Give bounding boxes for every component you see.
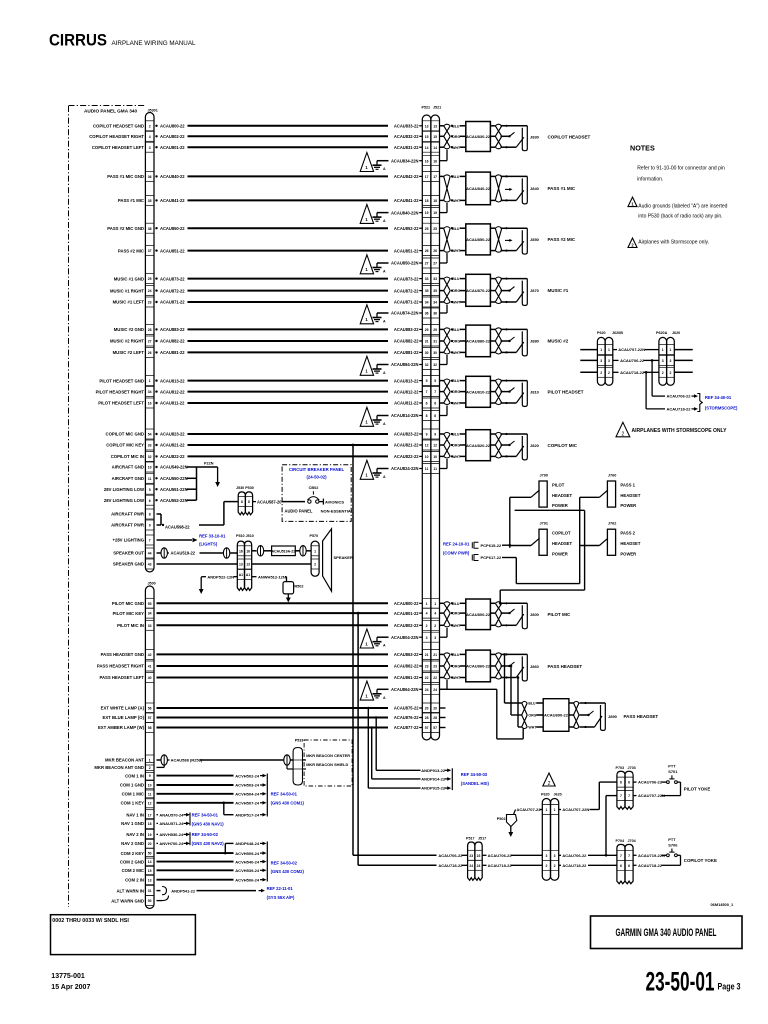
wire ACAU881-22 (MUSIC #2 LEFT) [113,350,423,355]
wire ANWH512-12N to resistor R502 [252,574,287,581]
svg-text:ORG: ORG [528,714,536,718]
circuit breaker panel box 24-50-02 [282,465,351,522]
svg-text:(SANDEL HSI): (SANDEL HSI) [461,781,490,786]
svg-text:2: 2 [149,766,151,770]
svg-text:2: 2 [548,781,551,787]
svg-text:PTT: PTT [668,764,676,769]
svg-text:25: 25 [148,277,152,281]
svg-text:MUSIC #1 RIGHT: MUSIC #1 RIGHT [110,288,144,293]
svg-text:(STORMSCOPE): (STORMSCOPE) [705,406,738,411]
svg-text:R502: R502 [294,584,303,588]
svg-text:ACAU822-22: ACAU822-22 [394,454,419,459]
svg-text:Refer to 91-10-00 for connecto: Refer to 91-10-00 for connector and pin [637,166,725,172]
svg-text:2: 2 [426,624,428,628]
svg-text:ACAU820-22: ACAU820-22 [466,443,491,448]
svg-text:29: 29 [433,328,437,332]
svg-text:1: 1 [365,267,368,272]
svg-text:ACAU718-22: ACAU718-22 [562,863,587,868]
svg-text:ANDP648-24: ANDP648-24 [235,841,260,846]
svg-text:ACAU876-22: ACAU876-22 [394,715,419,720]
svg-text:PILOT: PILOT [552,483,565,488]
svg-text:BLU: BLU [452,653,460,657]
svg-text:(GNS 430 NAV2): (GNS 430 NAV2) [192,841,225,846]
svg-text:26: 26 [148,351,152,355]
wire ACAU832-22 (COPILOT HEADSET RIGHT) [89,134,422,139]
svg-text:J620: J620 [672,331,680,335]
svg-text:PILOT HEADSET: PILOT HEADSET [548,390,584,395]
svg-text:20: 20 [148,842,152,846]
wires headset power distribution [499,497,585,604]
jack J870 (MUSIC #1) [501,278,540,306]
wire ACAU549-22N group (aircraft gnd / lighting low) [104,462,220,503]
svg-text:1: 1 [365,369,368,374]
svg-text:50: 50 [148,852,152,856]
svg-text:33: 33 [148,624,152,628]
svg-text:9: 9 [426,433,428,437]
svg-text:20: 20 [425,707,429,711]
svg-text:A1: A1 [246,573,250,577]
svg-text:into P530 (back of radio rack): into P530 (back of radio rack) any pin. [638,213,722,219]
svg-text:ACAU882-22: ACAU882-22 [160,339,185,344]
svg-text:16: 16 [433,159,437,163]
svg-text:3: 3 [545,854,547,858]
svg-text:SPEAKER OUT: SPEAKER OUT [113,551,144,556]
wire ACAU588 (R258) mkr beacon ant [94,755,293,770]
svg-text:REF 34-50-02: REF 34-50-02 [192,832,219,837]
note 1 audio grounds [628,197,728,219]
svg-text:26: 26 [433,249,437,253]
svg-text:1: 1 [662,348,664,352]
svg-text:16: 16 [425,159,429,163]
svg-text:18: 18 [425,199,429,203]
svg-text:AVIONICS: AVIONICS [325,499,344,504]
ground A note1 / wire ACAU814-22N [360,406,447,427]
svg-text:J800: J800 [530,612,540,617]
svg-text:ACAU871-22: ACAU871-22 [160,300,185,305]
svg-text:WHT: WHT [452,455,461,459]
wire ACAU800-22 (PILOT MIC GND) [112,601,422,606]
svg-text:P703: P703 [616,766,625,770]
svg-text:1: 1 [365,217,368,222]
svg-text:1: 1 [434,602,436,606]
svg-text:6: 6 [628,781,630,785]
svg-text:ANVH530-24: ANVH530-24 [159,832,184,837]
svg-text:MUSIC #2 RIGHT: MUSIC #2 RIGHT [110,339,144,344]
document number 13775-001 / 15 Apr 2007 [51,973,90,991]
svg-text:PASS HEADSET GND: PASS HEADSET GND [101,652,144,657]
svg-text:COM 2 MIC: COM 2 MIC [122,868,144,873]
wire ANDP913 drop [375,716,421,770]
ref 24-10-01 COMV PWR / wires PCP615-22 PCP617-22 [443,542,516,561]
svg-text:ACVH506-24: ACVH506-24 [235,877,260,882]
svg-text:ACAU872-22: ACAU872-22 [394,288,419,293]
jack J830 (COPILOT HEADSET) [501,125,540,151]
svg-text:6: 6 [620,781,622,785]
svg-text:3: 3 [426,636,428,640]
wire ACAU841-22 (PASS #1 MIC) [118,198,422,203]
svg-text:21: 21 [433,653,437,657]
wire ACAU852-22 (PASS #2 MIC GND) [107,226,422,231]
label PILOT MIC [548,612,571,617]
svg-text:ACAU851-22: ACAU851-22 [160,248,185,253]
notes heading [630,144,655,153]
svg-text:ACAU842-22: ACAU842-22 [394,174,419,179]
svg-text:P533: P533 [295,739,304,743]
svg-text:37: 37 [148,249,152,253]
svg-text:MUSIC #1: MUSIC #1 [548,288,569,293]
svg-text:2: 2 [600,371,602,375]
ground A note1 / wire ACAU834-22N [360,150,447,172]
wire ACAU833-22 (COPILOT HEADSET GND) [93,124,422,129]
svg-text:ACAU814-22N: ACAU814-22N [391,413,419,418]
connector P570 [310,534,320,576]
twisted shielded cable ACAU820-22 [440,430,502,461]
svg-text:13: 13 [148,878,152,882]
ground A note1 / wire ACAU850-22N [360,253,447,274]
svg-text:A: A [383,270,386,274]
svg-text:ACAU718-22: ACAU718-22 [638,863,663,868]
svg-text:ACVH509-24: ACVH509-24 [235,851,260,856]
svg-text:12: 12 [433,444,437,448]
svg-text:1: 1 [314,549,316,553]
svg-text:PCP617-22: PCP617-22 [481,555,502,560]
svg-text:A: A [383,219,386,223]
svg-text:16: 16 [148,402,152,406]
svg-text:J521: J521 [433,106,441,110]
connector J5301 (audio panel top) [145,109,157,573]
svg-text:28: 28 [425,716,429,720]
svg-text:27: 27 [148,340,152,344]
svg-text:PASS #2 MIC: PASS #2 MIC [548,237,576,242]
svg-text:8: 8 [434,414,436,418]
svg-text:ACAU812-22: ACAU812-22 [160,389,185,394]
svg-text:ACAU800-22: ACAU800-22 [466,612,491,617]
svg-text:J860: J860 [530,664,540,669]
svg-text:PASS HEADSET LEFT: PASS HEADSET LEFT [99,675,144,680]
svg-text:ANWH512-12N: ANWH512-12N [258,574,286,579]
svg-text:A: A [383,422,386,426]
wire pilot mic key drop (to P517) [357,612,437,866]
svg-text:29: 29 [425,328,429,332]
wires NAV2 group to GNS 430 NAV2 [121,832,224,846]
wires NAV1 group to GNS 430 NAV1 [121,812,224,826]
svg-text:1: 1 [600,348,602,352]
svg-text:7: 7 [628,854,630,858]
svg-text:2: 2 [554,864,556,868]
svg-text:COM 2 KEY: COM 2 KEY [121,851,145,856]
svg-text:ORG: ORG [452,390,460,394]
svg-text:J870: J870 [530,288,540,293]
svg-text:BLU: BLU [452,175,460,179]
twisted shielded cable ACAU890-22 [522,699,579,732]
connector P620 J620 (bottom) [541,793,562,881]
svg-text:J620B: J620B [612,331,623,335]
svg-text:15: 15 [433,135,437,139]
svg-text:S706: S706 [668,842,678,847]
note triangle 2 airplanes with stormscope only [616,422,727,437]
connector P703 J703 [616,766,636,809]
svg-text:1: 1 [670,348,672,352]
svg-text:J820: J820 [530,443,540,448]
twisted shielded cable ACAU880-22 [440,325,502,357]
svg-text:1: 1 [149,379,151,383]
jack J880 (MUSIC #2) [501,328,540,356]
svg-text:MUSIC #2 LEFT: MUSIC #2 LEFT [113,350,145,355]
svg-text:PILOT MIC IN: PILOT MIC IN [117,623,144,628]
svg-text:CB02: CB02 [309,486,319,490]
jack J820 (COPILOT MIC) [501,433,540,460]
svg-text:27: 27 [425,262,429,266]
wires P517 to P620 [482,853,542,868]
svg-text:ACAU706-22: ACAU706-22 [562,853,587,858]
svg-text:ACAU811-22: ACAU811-22 [160,401,185,406]
svg-text:CIRRUS: CIRRUS [49,32,107,50]
svg-text:ANDP914-22: ANDP914-22 [421,777,446,782]
svg-text:13775-001: 13775-001 [51,973,85,980]
svg-text:P517: P517 [466,837,475,841]
svg-text:ACAU551-22N: ACAU551-22N [160,487,188,492]
svg-text:3: 3 [434,636,436,640]
wire ACAU875-22 (EXT WHITE LAMP (A)) [101,706,423,711]
connector P517 J517 [466,837,486,881]
svg-text:A1: A1 [239,573,243,577]
svg-text:COPILOT HEADSET: COPILOT HEADSET [548,134,591,139]
drawing number 06M14500_1 [711,902,735,907]
svg-text:9: 9 [149,524,151,528]
svg-text:24: 24 [425,688,429,692]
svg-text:ACAU707-22N: ACAU707-22N [618,347,645,352]
svg-text:28V LIGHTING LOW: 28V LIGHTING LOW [104,487,144,492]
svg-text:J760: J760 [608,474,616,478]
svg-text:25: 25 [425,227,429,231]
svg-text:J703: J703 [628,766,636,770]
svg-text:MUSIC #1 LEFT: MUSIC #1 LEFT [113,300,145,305]
svg-text:BLU: BLU [528,702,536,706]
svg-text:6: 6 [628,864,630,868]
svg-text:ACAU800-22: ACAU800-22 [160,124,185,129]
svg-text:HEADSET: HEADSET [620,541,640,546]
svg-text:J704: J704 [628,839,637,843]
svg-text:28: 28 [433,716,437,720]
svg-text:PILOT MIC KEY: PILOT MIC KEY [113,611,145,616]
stub wires EXT lamp pins [440,708,446,728]
svg-text:2: 2 [149,124,151,128]
wire ACAU802-22 (PILOT MIC IN) [117,623,422,628]
svg-text:COPILOT MIC KEY: COPILOT MIC KEY [106,443,144,448]
svg-text:PCP615-22: PCP615-22 [481,543,502,548]
svg-text:7: 7 [426,390,428,394]
svg-text:23: 23 [433,665,437,669]
svg-text:AIRCRAFT GND: AIRCRAFT GND [112,476,144,481]
logo CIRRUS [49,32,196,50]
svg-text:1: 1 [608,348,610,352]
svg-text:ACAU823-22: ACAU823-22 [160,432,185,437]
svg-text:18: 18 [433,199,437,203]
label AUDIO PANEL GMA 340 [84,109,137,114]
label PASS HEADSET (J890) [624,714,659,719]
svg-text:35: 35 [148,199,152,203]
svg-text:ACAU549-22N: ACAU549-22N [160,465,188,470]
svg-text:(COMV PWR): (COMV PWR) [443,551,470,556]
svg-text:ANAU571-24: ANAU571-24 [159,821,184,826]
svg-text:PASS 1: PASS 1 [620,483,635,488]
svg-text:ANVH700-24: ANVH700-24 [159,841,184,846]
svg-text:13: 13 [239,563,243,567]
svg-text:ACAU801-22: ACAU801-22 [394,611,419,616]
svg-text:A: A [383,644,386,648]
svg-text:42: 42 [148,653,152,657]
svg-text:P510 J510: P510 J510 [236,534,254,538]
svg-text:PILOT MIC GND: PILOT MIC GND [112,601,144,606]
svg-text:PASS #1 MIC: PASS #1 MIC [548,186,576,191]
svg-text:35: 35 [433,289,437,293]
svg-text:ACAU880-22: ACAU880-22 [466,339,491,344]
svg-text:ACAU830-22: ACAU830-22 [466,134,491,139]
PTT switch S701 pilot yoke [633,764,710,799]
wire ACAU877-22 (EXT AMBER LAMP (W)) [98,725,422,730]
svg-text:WHT: WHT [452,351,461,355]
wire ACAU863-22 (PASS HEADSET GND) [101,652,423,657]
svg-text:2: 2 [314,563,316,567]
svg-text:HEADSET: HEADSET [552,493,572,498]
wire ACAU587-20 [253,499,305,504]
connector P533 [293,739,303,785]
svg-text:NOTES: NOTES [630,144,655,153]
svg-text:AIRCRAFT PWR: AIRCRAFT PWR [111,523,144,528]
svg-text:8: 8 [248,500,250,504]
svg-text:BLU: BLU [452,277,460,281]
svg-text:10: 10 [433,455,437,459]
svg-text:3: 3 [600,359,602,363]
wire copilot mic key drop (to P517) [352,444,437,856]
effectivity box 0002 THRU 0033 W/ SNDL HSI [51,915,196,955]
svg-text:NAV 1 GND: NAV 1 GND [121,821,144,826]
svg-text:ACAU850-22N: ACAU850-22N [391,261,419,266]
svg-text:ACAU840-22N: ACAU840-22N [391,210,419,215]
svg-text:WHT: WHT [452,301,461,305]
svg-text:PASS HEADSET: PASS HEADSET [548,664,583,669]
svg-text:P521: P521 [422,106,431,110]
svg-text:REF 33-10-01: REF 33-10-01 [199,533,226,538]
svg-text:24: 24 [469,864,473,868]
svg-text:06M14500_1: 06M14500_1 [711,902,735,907]
jack J760 pass 1 headset power [580,474,641,509]
svg-text:28V LIGHTING LOW: 28V LIGHTING LOW [104,498,144,503]
jack J790 pilot headset power [510,474,573,509]
svg-text:5: 5 [426,379,428,383]
svg-text:ACVH540-24: ACVH540-24 [235,859,260,864]
wire ACAU882-22 (MUSIC #2 RIGHT) [110,339,422,344]
resistor R502 [283,582,303,603]
svg-text:31: 31 [425,340,429,344]
svg-text:ACAU873-22: ACAU873-22 [160,276,185,281]
svg-text:J840: J840 [530,186,540,191]
svg-text:MUSIC #2: MUSIC #2 [548,339,569,344]
svg-text:A: A [383,475,386,479]
svg-text:GARMIN GMA 340 AUDIO PANEL: GARMIN GMA 340 AUDIO PANEL [616,927,717,939]
svg-text:J850: J850 [530,237,540,242]
svg-text:BLU: BLU [452,379,460,383]
svg-text:6: 6 [426,402,428,406]
svg-text:COPILOT MIC IN: COPILOT MIC IN [111,454,144,459]
svg-text:COM 2 IN: COM 2 IN [125,877,144,882]
svg-text:AIRCRAFT PWR: AIRCRAFT PWR [111,512,144,517]
svg-text:ACAU550-22N: ACAU550-22N [160,476,188,481]
svg-text:J790: J790 [540,474,548,478]
svg-text:6: 6 [620,864,622,868]
wire ACAU831-22 (COPILOT HEADSET LEFT) [92,145,422,150]
svg-text:5: 5 [434,379,436,383]
svg-text:ACAU833-22: ACAU833-22 [394,124,419,129]
svg-text:17: 17 [433,175,437,179]
svg-text:40: 40 [148,676,152,680]
svg-text:ACAU588 (R258): ACAU588 (R258) [171,758,203,763]
svg-text:P570: P570 [310,534,319,538]
svg-text:BLU: BLU [452,602,460,606]
svg-text:ACAU821-22: ACAU821-22 [394,443,419,448]
unit boundary AUDIO PANEL GMA 340 (dash-dot) [69,106,147,908]
svg-text:24: 24 [433,688,437,692]
svg-text:information.: information. [637,177,663,183]
svg-text:A: A [383,371,386,375]
svg-text:38: 38 [148,227,152,231]
title box GARMIN GMA 340 AUDIO PANEL [591,916,743,949]
svg-text:COM 1 KEY: COM 1 KEY [121,801,145,806]
svg-text:ACAU823-22: ACAU823-22 [394,432,419,437]
svg-text:30: 30 [425,351,429,355]
svg-text:19: 19 [148,833,152,837]
svg-text:13: 13 [433,124,437,128]
svg-text:PASS HEADSET: PASS HEADSET [624,714,659,719]
svg-text:1: 1 [426,602,428,606]
svg-text:15: 15 [148,869,152,873]
svg-text:ANDP517-24: ANDP517-24 [235,812,260,817]
svg-text:ACAU834-22N: ACAU834-22N [391,158,419,163]
svg-text:57: 57 [425,726,429,730]
svg-text:ACAU812-22: ACAU812-22 [394,389,419,394]
svg-text:ACAU862-22: ACAU862-22 [394,664,419,669]
svg-text:ACAU801-22: ACAU801-22 [160,145,185,150]
svg-text:16: 16 [246,549,250,553]
label PASS #1 MIC [548,186,576,191]
svg-text:17: 17 [148,813,152,817]
svg-text:24: 24 [477,864,481,868]
svg-text:J890: J890 [608,714,618,719]
svg-text:ORG: ORG [452,289,460,293]
wire ACAU851-22 (PASS #2 MIC) [118,248,422,253]
svg-text:1: 1 [365,317,368,322]
connector J500 (audio panel bottom) [145,582,155,909]
svg-text:MUSIC #1 GND: MUSIC #1 GND [114,276,144,281]
svg-text:COM 1 GND: COM 1 GND [120,783,144,788]
svg-text:AUDIO PANEL GMA 340: AUDIO PANEL GMA 340 [84,109,137,114]
jack J860 (PASS HEADSET) [501,653,540,681]
svg-text:9: 9 [434,433,436,437]
svg-text:ORG: ORG [452,444,460,448]
svg-text:ACVH507-24: ACVH507-24 [235,801,260,806]
svg-text:Audio grounds (labeled "A") ar: Audio grounds (labeled "A") are inserted [638,204,727,210]
connector P620 J620B [580,331,623,385]
svg-text:23: 23 [477,854,481,858]
svg-text:12: 12 [425,444,429,448]
svg-text:ACAU718-22: ACAU718-22 [667,407,692,412]
svg-text:ACAU813-22: ACAU813-22 [394,378,419,383]
svg-text:34: 34 [425,301,429,305]
svg-text:P620: P620 [597,331,606,335]
svg-text:PASS #1 MIC GND: PASS #1 MIC GND [107,174,144,179]
svg-text:PILOT MIC: PILOT MIC [548,612,571,617]
wire ACAU872-22 (MUSIC #1 RIGHT) [110,288,422,293]
